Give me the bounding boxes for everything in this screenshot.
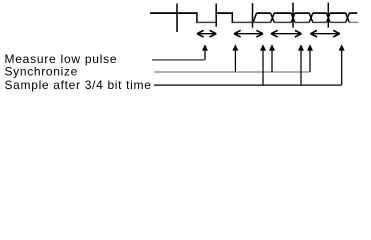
measure arrow 3 xyxy=(271,30,302,37)
bus crossing 4 rise xyxy=(327,13,331,22)
bus crossing 2 fall xyxy=(291,13,295,22)
bus high segment 3 xyxy=(295,12,310,14)
bus crossing 4 fall xyxy=(327,13,331,22)
wire: waveform high segment 1 xyxy=(150,12,198,14)
tick: rising edge boundary xyxy=(215,4,217,27)
synchronize up arrow 3 xyxy=(307,44,313,72)
bus crossing 1 fall xyxy=(271,13,275,22)
wire: waveform low segment 2 xyxy=(232,21,252,23)
bus low segment 3 xyxy=(295,21,310,23)
measure low pulse up arrow xyxy=(202,44,208,60)
bus crossing 1 rise xyxy=(271,13,275,22)
tick: bus boundary xyxy=(292,3,294,28)
bus crossing 3 rise xyxy=(309,13,313,22)
tick: bus boundary xyxy=(327,3,329,28)
bus high segment 1 xyxy=(256,12,270,14)
bus low segment 5 xyxy=(330,21,346,23)
bus low end stub xyxy=(349,21,358,23)
bus crossing 5 rise xyxy=(346,13,350,22)
synchronize connector line xyxy=(155,71,311,73)
bus low segment 1 xyxy=(253,21,271,23)
wire: falling edge 2 xyxy=(231,12,233,23)
bus high end stub xyxy=(349,12,357,14)
bus high segment 5 xyxy=(330,12,346,14)
sample up arrow 3 xyxy=(339,44,345,85)
svg-text:Sample after 3/4 bit time: Sample after 3/4 bit time xyxy=(5,78,152,92)
bus high segment 2 xyxy=(274,12,291,14)
wire: waveform high segment 2 xyxy=(216,12,233,14)
measure arrow 4 xyxy=(310,30,339,37)
svg-text:Synchronize: Synchronize xyxy=(5,65,79,79)
bus rise at start xyxy=(253,13,257,22)
bus crossing 3 fall xyxy=(309,13,313,22)
measure low pulse connector line xyxy=(152,59,205,61)
measure arrow 2 xyxy=(234,30,263,37)
sample up arrow 2 xyxy=(298,44,304,85)
wire: waveform low segment 1 xyxy=(197,21,216,23)
wire: falling edge 1 xyxy=(196,12,198,23)
tick: sync field start xyxy=(252,3,254,27)
sample connector line xyxy=(154,84,342,86)
bus crossing 5 fall xyxy=(346,13,350,22)
synchronize up arrow 1 xyxy=(232,44,238,72)
synchronize up arrow 2 xyxy=(269,44,275,72)
bus low segment 2 xyxy=(274,21,291,23)
measure arrow 1 (low pulse width) xyxy=(197,30,216,37)
tick: bit boundary xyxy=(176,4,178,33)
bus low segment 4 xyxy=(313,21,327,23)
sample up arrow 1 xyxy=(260,44,266,85)
bus crossing 2 rise xyxy=(291,13,295,22)
bus high segment 4 xyxy=(313,12,327,14)
